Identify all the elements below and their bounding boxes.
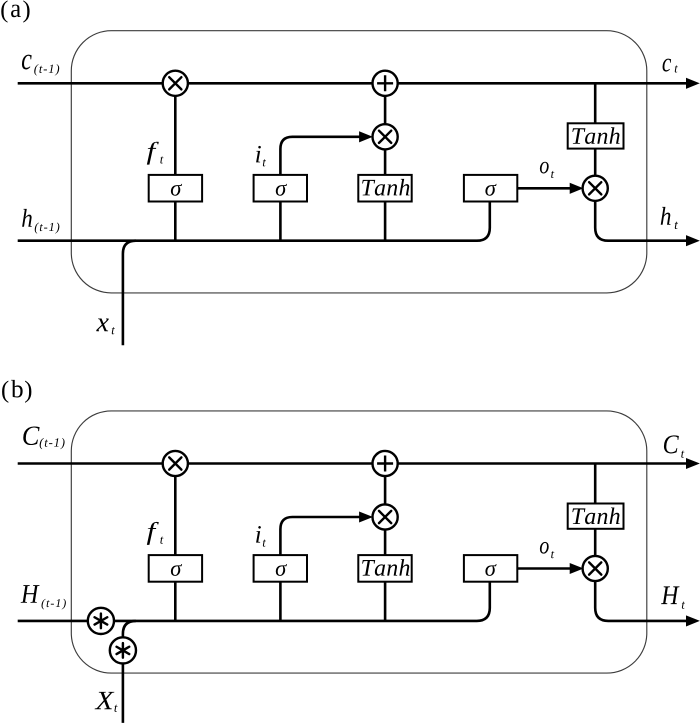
label input c (a) (22, 55, 59, 76)
multiply node forget (a) (163, 71, 188, 96)
label output c (b) (664, 435, 684, 457)
wire output tanh branch (b) (594, 464, 597, 556)
output tanh box (a) (568, 123, 624, 148)
sigma gate box f (a) (149, 175, 202, 202)
wire candidate stem (b) (384, 476, 387, 621)
label o_t (a) (540, 162, 554, 178)
label output h (b) (661, 586, 685, 608)
wire i_t to multiply node (a) (280, 132, 371, 175)
wire c-state line (a) (18, 79, 699, 89)
wire output tanh branch (a) (594, 83, 597, 175)
label output h (a) (661, 207, 678, 229)
cell boundary box (a) (71, 31, 647, 293)
convolution node on H bus (b) (88, 608, 114, 634)
wire x-input (b) (123, 621, 136, 723)
sigma gate box o (b) (464, 555, 517, 582)
wire o_t arrow (a) (517, 184, 583, 194)
wire forget gate stem (b) (174, 476, 177, 621)
panel label (b) (2, 380, 31, 403)
multiply node output (b) (583, 556, 608, 581)
multiply node input (a) (373, 124, 398, 149)
cell boundary box (b) (71, 411, 647, 673)
wire h-output (a) (595, 201, 698, 246)
wire o_t arrow (b) (517, 564, 583, 574)
sigma gate box f (b) (149, 555, 202, 582)
sigma gate box i (a) (254, 175, 307, 202)
wire c-state line (b) (18, 459, 699, 469)
tanh gate box (b) (358, 555, 411, 582)
panel label (a) (1, 0, 29, 22)
sigma gate box i (b) (254, 555, 307, 582)
sigma gate box o (a) (464, 175, 517, 202)
wire i_t to multiply node (b) (280, 512, 371, 555)
multiply node input (b) (373, 504, 398, 529)
plus node (a) (373, 71, 398, 96)
wire input gate stem (b) (279, 582, 282, 621)
wire input gate stem (a) (279, 202, 282, 241)
label input h (a) (22, 209, 59, 234)
label i_t (a) (256, 146, 266, 167)
label input h (b) (21, 585, 66, 609)
wire forget gate stem (a) (174, 96, 177, 241)
convolution node on X input (b) (110, 637, 136, 663)
tanh gate box (a) (358, 175, 411, 202)
label x input (a) (96, 318, 115, 334)
wire h-state input bus (a) (18, 202, 490, 241)
wire h-output (b) (595, 581, 698, 626)
label x input (b) (95, 692, 118, 712)
label f_t (a) (147, 142, 164, 165)
multiply node forget (b) (163, 451, 188, 476)
output tanh box (b) (568, 504, 624, 529)
multiply node output (a) (583, 176, 608, 201)
wire h-state input bus (b) (18, 582, 490, 621)
label f_t (b) (147, 522, 164, 545)
label input c (b) (23, 426, 64, 449)
wire x-input (a) (123, 241, 136, 346)
label o_t (b) (540, 542, 554, 558)
plus node (b) (373, 451, 398, 476)
label output c (a) (663, 59, 678, 73)
wire candidate stem (a) (384, 96, 387, 241)
label i_t (b) (256, 526, 266, 547)
